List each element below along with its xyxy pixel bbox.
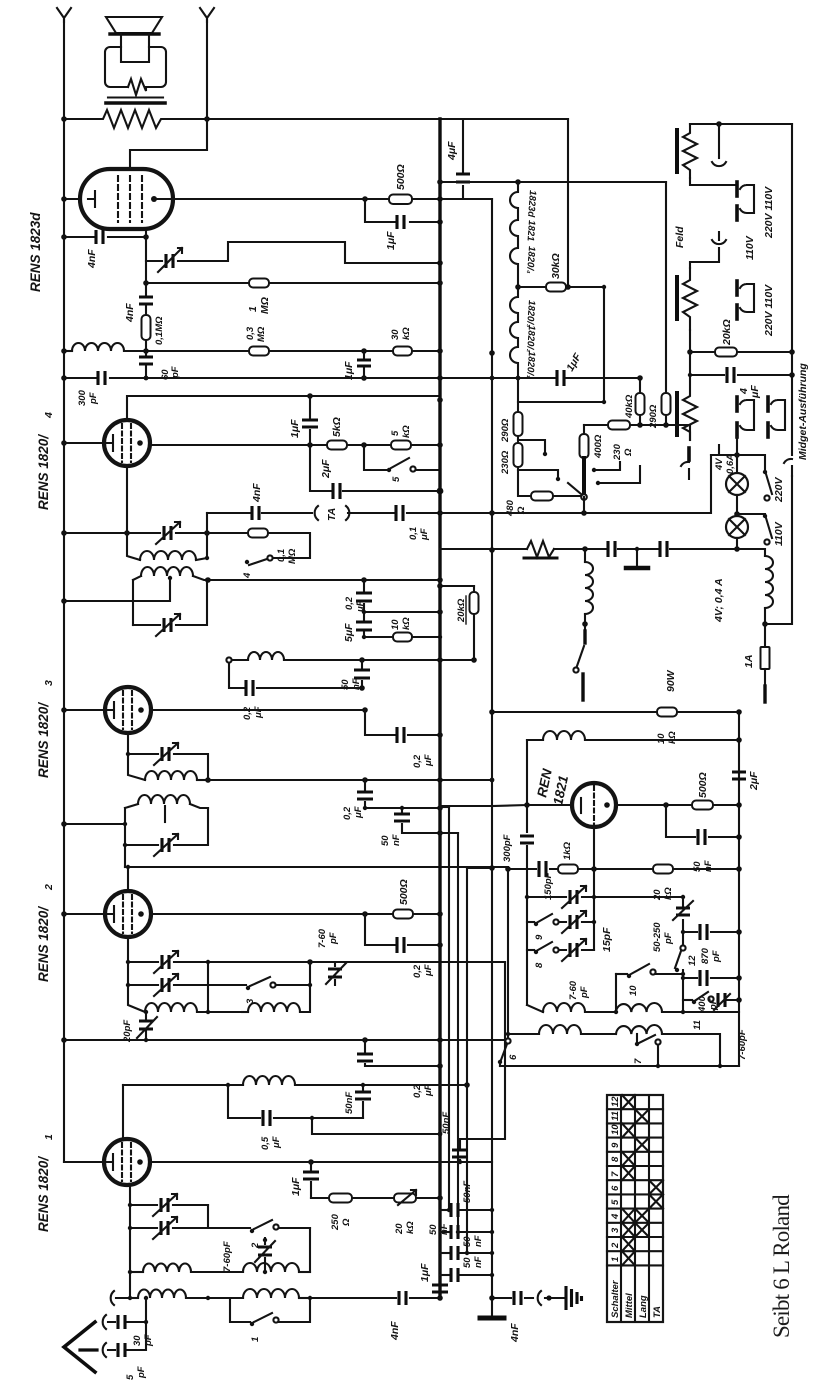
svg-text:1μF: 1μF bbox=[290, 1177, 302, 1196]
potentiometer 20 kohm bbox=[394, 1194, 416, 1203]
resistor 30 kohm heater row bbox=[518, 286, 604, 288]
junction 207,580 bbox=[205, 578, 209, 582]
capacitor 0,1uF bbox=[396, 505, 403, 521]
svg-text:2μF: 2μF bbox=[320, 459, 332, 479]
resistor 40 kohm bbox=[636, 393, 645, 415]
svg-text:20: 20 bbox=[394, 1223, 405, 1235]
svg-text:10: 10 bbox=[628, 985, 639, 996]
wire cathode drop x=130 bbox=[129, 1185, 131, 1298]
row y=378 with 300pF bbox=[64, 377, 440, 379]
svg-text:30: 30 bbox=[132, 1335, 143, 1346]
svg-text:10: 10 bbox=[656, 733, 667, 744]
SEC_REN bbox=[440, 709, 760, 1068]
junction 364,351 bbox=[361, 348, 367, 354]
junction 362,660 bbox=[359, 657, 365, 663]
tuning coil row B bbox=[508, 1033, 539, 1035]
REN1821 anode dot bbox=[604, 802, 610, 808]
wire grid vertical x=146 bbox=[145, 229, 147, 378]
svg-text:5: 5 bbox=[125, 1374, 136, 1380]
tetrode RENS 1820/3 envelope bbox=[105, 687, 151, 733]
svg-text:0,2: 0,2 bbox=[344, 596, 355, 610]
capacitor 4nF on x=146 bbox=[139, 297, 153, 304]
svg-text:2μF: 2μF bbox=[748, 771, 760, 791]
SEC_TOPLEFT bbox=[28, 8, 568, 1162]
svg-text:20kΩ: 20kΩ bbox=[721, 319, 733, 346]
heater winding right bbox=[765, 556, 773, 608]
svg-text:0,2: 0,2 bbox=[342, 806, 353, 820]
svg-text:50nF: 50nF bbox=[441, 1112, 452, 1134]
grid coil row y=660 bbox=[226, 657, 231, 662]
loudspeaker cone bbox=[106, 17, 162, 33]
svg-text:4nF: 4nF bbox=[389, 1321, 401, 1341]
svg-text:1: 1 bbox=[610, 1257, 621, 1262]
svg-text:220V 110V: 220V 110V bbox=[763, 186, 775, 239]
wire tube grid stub bbox=[593, 827, 595, 869]
svg-text:4: 4 bbox=[43, 412, 55, 419]
Feld choke 2 bbox=[683, 268, 697, 330]
variable capacitor ant A bbox=[130, 1204, 208, 1206]
svg-text:TA: TA bbox=[326, 508, 338, 521]
svg-text:230Ω: 230Ω bbox=[500, 450, 511, 475]
svg-text:4V: 4V bbox=[714, 458, 725, 471]
svg-text:pF: pF bbox=[143, 1334, 154, 1347]
svg-text:4: 4 bbox=[242, 572, 253, 579]
junction 146,237 bbox=[143, 234, 149, 240]
svg-text:1: 1 bbox=[247, 306, 259, 312]
capacitor 4nF bottom left bbox=[399, 1291, 406, 1305]
svg-text:500Ω: 500Ω bbox=[395, 164, 407, 190]
wire row y=867 long bbox=[125, 866, 508, 868]
dial lamp 1 bbox=[736, 437, 738, 473]
resistor 1 Mohm bbox=[249, 279, 269, 288]
grid cap 4nF row y=237 bbox=[64, 236, 146, 238]
heater tap contacts bbox=[518, 440, 545, 452]
svg-text:250: 250 bbox=[330, 1213, 341, 1231]
wire pill cathode stub bbox=[64, 198, 80, 200]
svg-text:pF: pF bbox=[328, 932, 339, 945]
svg-text:150pF: 150pF bbox=[543, 872, 554, 900]
coil 4 bumps row 351 bbox=[72, 343, 124, 351]
primary coil left bbox=[582, 546, 588, 552]
svg-text:RENS 1820/: RENS 1820/ bbox=[36, 906, 51, 982]
heater plug pins bottom pair bbox=[740, 400, 754, 430]
wire anode row y=199 to bus bbox=[173, 198, 440, 200]
switch 3 bbox=[208, 984, 246, 986]
tetrode RENS 1820/4 envelope bbox=[104, 420, 150, 466]
svg-text:1μF: 1μF bbox=[419, 1263, 431, 1282]
svg-text:500Ω: 500Ω bbox=[398, 879, 410, 905]
capacitor 2uF bbox=[310, 445, 440, 491]
tetrode RENS 1820/1 envelope bbox=[104, 1139, 150, 1185]
capacitor 50nF band bbox=[362, 1085, 364, 1118]
1820/3 cathode bar bbox=[108, 702, 114, 718]
svg-text:1823d: 1823d bbox=[525, 190, 538, 218]
junction 64,351 bbox=[61, 348, 67, 354]
wire feed from left bus y=824 bbox=[64, 823, 125, 825]
wire TA to 0,1uF bbox=[348, 512, 440, 514]
variable cap row y=261 bbox=[146, 242, 440, 263]
wire rows into lower verticals bbox=[440, 806, 449, 808]
junction 364,445 bbox=[361, 442, 367, 448]
wire grid riser x=147 bbox=[122, 1085, 124, 1139]
1820/1 anode dot bbox=[137, 1159, 143, 1165]
X marks Mittel column bbox=[622, 1095, 635, 1109]
svg-text:50: 50 bbox=[380, 835, 391, 846]
coil det3 bbox=[128, 754, 145, 780]
lower bus group verticals bbox=[448, 807, 450, 1210]
wire anode row y=1162 bbox=[150, 1161, 492, 1163]
wire row y=808 bbox=[365, 807, 440, 809]
svg-text:4: 4 bbox=[610, 1213, 621, 1220]
capacitor 60pF on x=146 bbox=[139, 357, 153, 364]
row y=1290 bottom with 4nF bbox=[310, 1297, 440, 1299]
wire row y=513 right part bbox=[440, 445, 719, 513]
svg-text:50nF: 50nF bbox=[344, 1092, 355, 1114]
row y=283 with 1 Mohm bbox=[146, 282, 440, 284]
detector box left vertical x=527 bbox=[526, 740, 528, 1005]
junction 64,378 bbox=[61, 375, 67, 381]
svg-text:nF: nF bbox=[473, 1256, 484, 1268]
capacitor 4uF mains bbox=[690, 352, 792, 375]
output transformer primary zigzag on row 120 bbox=[64, 110, 207, 128]
bus junction dots bbox=[437, 280, 443, 286]
output transformer core bars bbox=[108, 96, 163, 98]
mains terminal arc bottom right bbox=[784, 459, 792, 476]
svg-text:1: 1 bbox=[43, 1134, 55, 1140]
resistor 20 kohm det bbox=[653, 865, 673, 874]
svg-text:7-60: 7-60 bbox=[568, 980, 579, 1000]
speaker terminal fork right bbox=[200, 8, 214, 22]
wire row y=805 bbox=[440, 805, 573, 806]
junction anode row at 365 bbox=[362, 196, 368, 202]
svg-text:0,2: 0,2 bbox=[242, 706, 253, 720]
X marks TA column bbox=[649, 1180, 663, 1194]
svg-text:μF: μF bbox=[749, 385, 761, 399]
svg-text:230: 230 bbox=[612, 443, 623, 461]
junction 310,445 bbox=[307, 442, 313, 448]
variable capacitor primary4 bbox=[133, 580, 207, 625]
chassis bar bottom of bus 492 bbox=[480, 1316, 504, 1321]
capacitor 50nF c bbox=[440, 1252, 449, 1254]
svg-text:nF: nF bbox=[391, 834, 402, 846]
svg-text:110V: 110V bbox=[773, 521, 785, 546]
svg-text:1kΩ: 1kΩ bbox=[562, 841, 573, 860]
1820/4 grid dashes bbox=[122, 424, 131, 462]
svg-text:290Ω: 290Ω bbox=[500, 418, 511, 443]
wire tube2 cathode down bbox=[127, 937, 129, 962]
resistor 500 ohm stage2 bbox=[365, 913, 440, 915]
svg-text:50: 50 bbox=[692, 861, 703, 872]
svg-text:2: 2 bbox=[610, 1242, 621, 1249]
wire from Midget terminal to heater winding bbox=[765, 476, 792, 624]
fuse 1A bbox=[761, 647, 770, 669]
capacitor 300pF bbox=[98, 371, 105, 385]
switch 2 bbox=[208, 1227, 250, 1229]
resistor 230 ohm horizontal bbox=[608, 421, 630, 430]
pin 2 with bracket bbox=[740, 185, 754, 213]
svg-text:500Ω: 500Ω bbox=[697, 772, 709, 798]
trimmer 7-60pF vertical bbox=[334, 962, 336, 985]
svg-text:kΩ: kΩ bbox=[401, 425, 412, 438]
junction 310,396 bbox=[307, 393, 313, 399]
IF coil primary (stage4) bbox=[133, 576, 141, 580]
wire lamp feed bbox=[711, 454, 737, 456]
antenna jack arc bbox=[111, 1291, 130, 1305]
svg-text:μF: μF bbox=[423, 964, 434, 977]
svg-text:4nF: 4nF bbox=[251, 483, 263, 503]
svg-text:μF: μF bbox=[271, 1136, 282, 1149]
capacitor 0,5uF loop bbox=[228, 1085, 363, 1118]
junction speaker row right bbox=[204, 116, 210, 122]
wire row y=182 bbox=[440, 181, 666, 183]
resistor 20 kohm screen-feed vertical bbox=[473, 586, 475, 660]
svg-text:pF: pF bbox=[711, 950, 722, 963]
svg-text:MΩ: MΩ bbox=[256, 326, 267, 342]
X marks Lang column bbox=[635, 1109, 649, 1123]
svg-text:kΩ: kΩ bbox=[405, 1221, 416, 1234]
svg-text:Midget-Ausführung: Midget-Ausführung bbox=[797, 363, 809, 460]
wire row y=549 bbox=[440, 549, 765, 556]
svg-text:9: 9 bbox=[610, 1142, 621, 1148]
svg-text:4nF: 4nF bbox=[86, 249, 98, 269]
svg-text:0,3: 0,3 bbox=[245, 326, 256, 340]
resistor 0,1 Mohm AVC bbox=[207, 532, 248, 534]
IF coil secondary (stage4) bbox=[127, 533, 140, 560]
svg-text:pF: pF bbox=[663, 932, 674, 945]
svg-text:10: 10 bbox=[390, 619, 401, 630]
right edge bus x=792 bbox=[791, 124, 793, 455]
speaker terminal fork left bbox=[57, 8, 71, 22]
wire anode row right bbox=[616, 804, 739, 806]
svg-text:RENS 1823d: RENS 1823d bbox=[28, 212, 43, 292]
capacitor 50nF b bbox=[440, 1231, 449, 1233]
switch 10 bbox=[616, 973, 627, 975]
pin 4 with bracket lower bbox=[740, 284, 754, 312]
svg-text:30: 30 bbox=[390, 329, 401, 340]
svg-text:1820/₂: 1820/₂ bbox=[524, 325, 537, 353]
junction 207,533 bbox=[204, 530, 210, 536]
svg-text:RENS 1820/: RENS 1820/ bbox=[36, 1156, 51, 1232]
capacitor 300pF grid bbox=[520, 836, 534, 843]
junction 64,710 bbox=[61, 707, 67, 713]
tap stub wires bbox=[596, 462, 620, 470]
switch 4 bbox=[267, 555, 272, 560]
svg-text:1: 1 bbox=[250, 1337, 261, 1342]
svg-text:μF: μF bbox=[423, 1084, 434, 1097]
svg-text:5μF: 5μF bbox=[343, 623, 355, 642]
wire tube3 left bbox=[64, 709, 105, 711]
svg-text:20: 20 bbox=[652, 889, 663, 901]
switch 5 bbox=[364, 445, 387, 470]
svg-text:1820/₃: 1820/₃ bbox=[524, 300, 537, 328]
1820/4 anode dot bbox=[137, 440, 143, 446]
coil primary (stage2 grid) bbox=[125, 804, 138, 808]
svg-text:7: 7 bbox=[633, 1058, 644, 1064]
capacitor 5uF bbox=[363, 612, 365, 637]
wire row y=780 to bus bbox=[208, 779, 492, 781]
table row lines bbox=[607, 1109, 663, 1265]
svg-text:8: 8 bbox=[534, 962, 545, 968]
switch table frame bbox=[607, 1095, 663, 1322]
wire row y=120 to center bbox=[207, 118, 568, 120]
detector box bottom row y=1066 bbox=[500, 1065, 739, 1067]
resistor 30 kohm row351 bbox=[393, 347, 412, 356]
switch 7 bbox=[636, 1034, 638, 1042]
svg-text:3: 3 bbox=[43, 680, 55, 686]
svg-text:50nF: 50nF bbox=[462, 1181, 473, 1203]
variable capacitor stage2grid bbox=[125, 808, 208, 845]
REN1821 grid dash bbox=[593, 786, 595, 824]
wire bus top corner bbox=[440, 119, 492, 199]
capacitor 0,2uF 780-808 bbox=[364, 780, 366, 808]
svg-text:50: 50 bbox=[462, 1236, 473, 1247]
svg-text:Ω: Ω bbox=[341, 1218, 352, 1227]
resistor 480 ohm bbox=[518, 467, 531, 496]
wire tube1 left bbox=[64, 1161, 104, 1163]
svg-text:220V: 220V bbox=[773, 476, 785, 503]
svg-text:MΩ: MΩ bbox=[287, 548, 298, 564]
1823d cathode bar bbox=[88, 191, 95, 207]
svg-text:nF: nF bbox=[473, 1235, 484, 1247]
capacitor 1uF bottom bbox=[432, 1285, 448, 1292]
svg-text:μF: μF bbox=[423, 754, 434, 767]
svg-text:pF: pF bbox=[136, 1366, 147, 1379]
switch 11 and trimmer bbox=[683, 999, 692, 1001]
junction bus 513 bbox=[437, 510, 443, 516]
capacitor 4nF grid bbox=[96, 230, 103, 244]
junction bus 222 bbox=[437, 219, 443, 225]
socket pins column top bbox=[718, 124, 720, 158]
wire grid spine x=594 bbox=[593, 869, 595, 950]
svg-text:870: 870 bbox=[700, 947, 711, 964]
junction 146,351 bbox=[143, 348, 149, 354]
pickup jack arc bbox=[538, 1291, 566, 1305]
capacitor 150pF bbox=[539, 861, 546, 877]
right spine x=694 bbox=[682, 897, 684, 1012]
svg-text:pF: pF bbox=[579, 986, 590, 999]
resistor 0,3 Mohm bbox=[249, 347, 269, 356]
SEC_POWER bbox=[437, 121, 809, 744]
capacitor 50nF det bbox=[666, 805, 739, 837]
1823d anode dot and lead bbox=[151, 196, 157, 202]
svg-text:1μF: 1μF bbox=[385, 231, 397, 250]
SEC_TABLE bbox=[607, 1095, 794, 1338]
variable capacitor (reaction) bbox=[166, 254, 173, 268]
antenna symbol bbox=[64, 1322, 95, 1372]
svg-text:5kΩ: 5kΩ bbox=[331, 417, 343, 437]
resistor 230 ohm heater tap bbox=[517, 436, 519, 443]
capacitor 0,2uF stage2 bbox=[365, 914, 440, 945]
earth ground symbol bbox=[566, 1286, 582, 1310]
variable capacitor det3 bbox=[128, 754, 208, 780]
resistor 1 kohm bbox=[558, 865, 578, 874]
junction 365,780 bbox=[362, 777, 368, 783]
wire left bus x=64 top bbox=[63, 20, 65, 1162]
svg-text:300pF: 300pF bbox=[502, 834, 513, 862]
svg-text:TA: TA bbox=[652, 1306, 663, 1318]
svg-text:0,1: 0,1 bbox=[408, 527, 419, 540]
svg-text:4nF: 4nF bbox=[509, 1323, 521, 1343]
resistor 5 kohm bbox=[327, 441, 347, 450]
capacitor 50nF stage3 bbox=[361, 660, 363, 688]
ground tap between caps bbox=[636, 549, 638, 566]
resistor 500 ohm det bbox=[692, 801, 713, 810]
switch 220V bbox=[737, 455, 765, 470]
capacitor 2uF det bbox=[732, 772, 746, 779]
svg-text:nF: nF bbox=[703, 860, 714, 872]
wire choke1 bottom elbow bbox=[690, 178, 736, 185]
right detector bus x=739 bbox=[738, 712, 740, 1066]
branch 0,2uF x=364 row580-612 bbox=[364, 580, 440, 612]
wire switch6 spine x=508 bbox=[507, 869, 509, 1038]
svg-text:kΩ: kΩ bbox=[401, 617, 412, 630]
capacitor series a bbox=[608, 541, 615, 557]
main HT bus x=440 bbox=[438, 119, 441, 1298]
svg-text:50: 50 bbox=[428, 1224, 439, 1235]
wire anode row3 bbox=[151, 709, 365, 711]
svg-text:30kΩ: 30kΩ bbox=[550, 253, 562, 279]
row y=513 TA input bbox=[207, 512, 312, 514]
junction bus 491 bbox=[437, 488, 444, 495]
TA jack arcs bbox=[315, 506, 318, 520]
row y=1040 long bbox=[64, 1039, 505, 1041]
capacitor 1uF screen bbox=[309, 396, 311, 445]
svg-text:0,1: 0,1 bbox=[276, 549, 287, 562]
wire mains top row y=124 bbox=[690, 123, 792, 125]
SEC_LEFTMID bbox=[36, 393, 508, 1098]
coil tap stub bbox=[164, 806, 166, 822]
wire tube4 left bbox=[64, 442, 104, 444]
svg-text:3: 3 bbox=[610, 1227, 621, 1233]
svg-text:50: 50 bbox=[462, 1257, 473, 1268]
junction 146,283 bbox=[143, 280, 149, 286]
wire x=666 long drop from row 182 bbox=[665, 182, 667, 393]
resistor 20 kohm mains bbox=[690, 351, 792, 353]
wire switch10 stub bbox=[615, 974, 617, 1012]
1820/2 cathode bar bbox=[108, 906, 114, 922]
voltage tap wiper bbox=[582, 458, 586, 492]
capacitor series b bbox=[660, 541, 667, 557]
svg-text:50-250: 50-250 bbox=[652, 922, 663, 952]
1820/3 grid dashes bbox=[123, 691, 132, 729]
resistor 500 ohm (output) bbox=[389, 195, 412, 205]
svg-text:0,1MΩ: 0,1MΩ bbox=[154, 316, 165, 345]
resistor 5 kohm second bbox=[391, 441, 411, 450]
variable capacitor a stage2 bbox=[128, 961, 208, 963]
svg-text:kΩ: kΩ bbox=[667, 731, 678, 744]
Feld choke 3 bbox=[683, 375, 697, 440]
capacitor 4uF top bbox=[462, 119, 464, 199]
svg-text:0,2: 0,2 bbox=[412, 964, 423, 978]
junction bus 199 bbox=[437, 196, 443, 202]
wire branch row 1134 bbox=[312, 1118, 440, 1134]
svg-text:7-60: 7-60 bbox=[317, 928, 328, 948]
antenna coil pair row y=1298 bbox=[128, 1296, 132, 1300]
svg-text:4V; 0,4 A: 4V; 0,4 A bbox=[713, 578, 725, 623]
svg-text:1A: 1A bbox=[743, 655, 755, 668]
trimmer 7-60pF ant bbox=[264, 1238, 266, 1264]
resistor 250 ohm bbox=[329, 1194, 352, 1203]
svg-text:11: 11 bbox=[692, 1020, 703, 1030]
variable capacitor grid2 bbox=[559, 949, 594, 951]
1820/2 grid dashes bbox=[123, 895, 132, 933]
resistor 400 ohm bbox=[580, 434, 589, 458]
wire x=568 drop from row120 bbox=[567, 119, 569, 285]
capacitor 1uF bias bbox=[310, 1162, 312, 1198]
pin arc 3 bbox=[712, 232, 726, 244]
SEC_BOTTOM bbox=[36, 1076, 492, 1380]
capacitor 0,2uF stage3grid bbox=[229, 663, 362, 688]
